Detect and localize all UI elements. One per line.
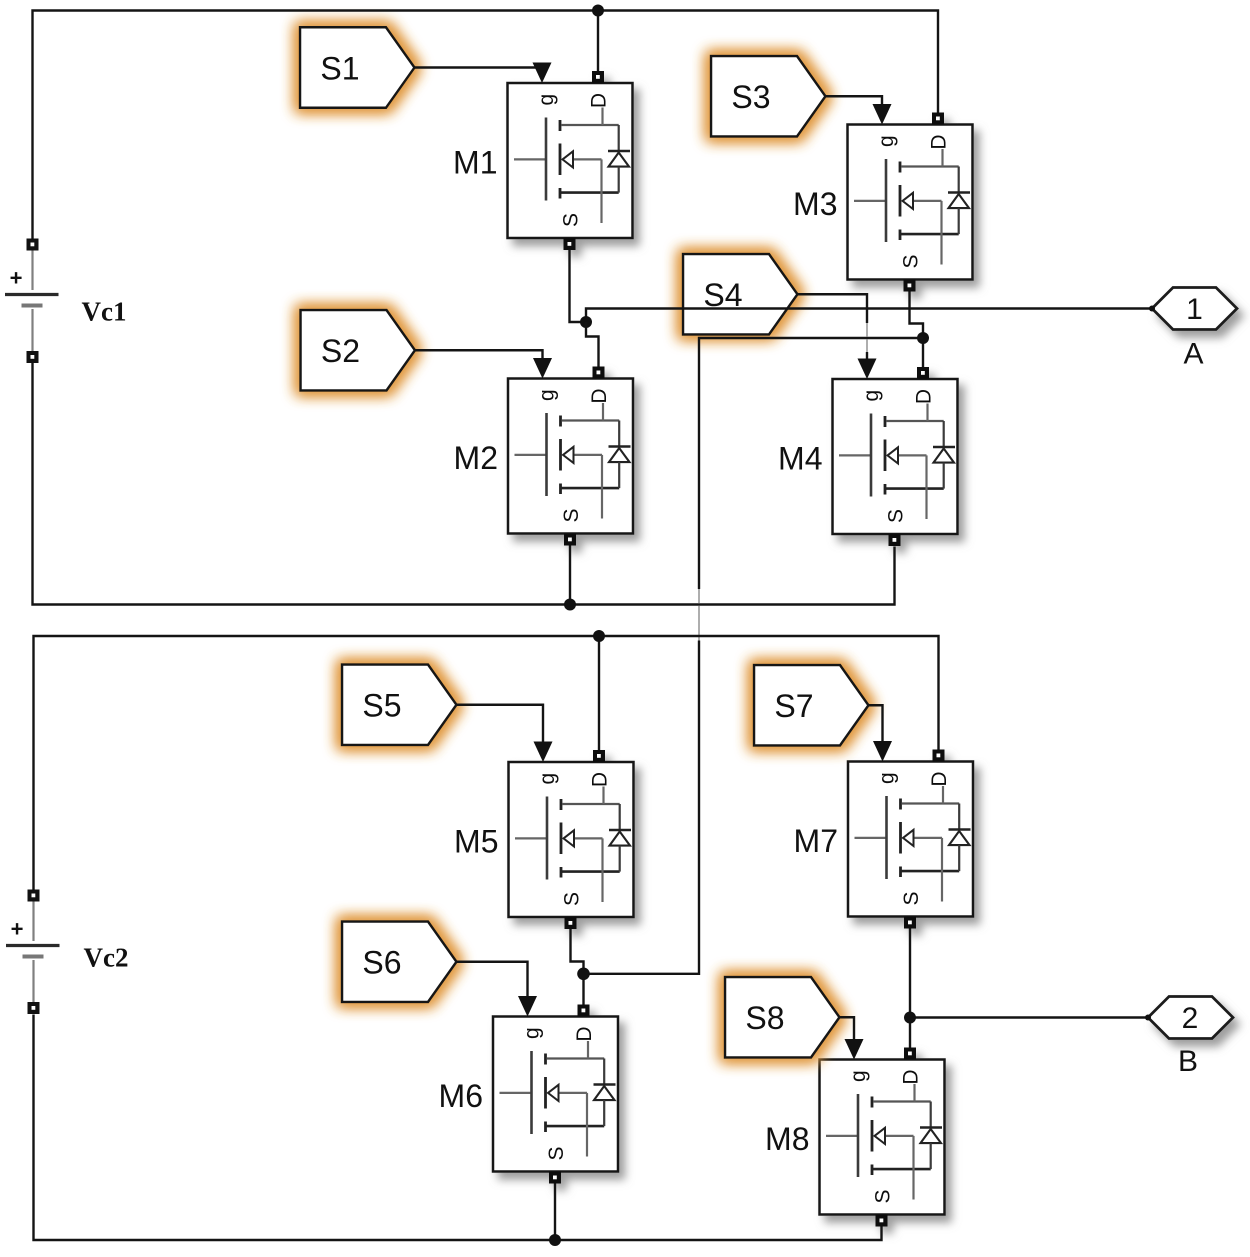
node: negative rail junction at M2 source	[564, 599, 576, 611]
wire: M7 source down through midpoint to M8 drain	[909, 929, 911, 1048]
transistor M5 (MOSFET)	[509, 750, 634, 929]
wire: M3 source jog down to leg-B midpoint and M4 drain	[910, 292, 924, 368]
wire: leg-A midpoint down to M2 drain	[586, 322, 599, 367]
wire: S6 tag to M6 gate	[457, 962, 528, 1012]
output port 2 (hexagon)	[1148, 997, 1233, 1039]
wire: M5 source jog down to bridge-2 left midpoint and M6 drain	[571, 929, 584, 1005]
node: bridge-2 right midpoint junction	[904, 1012, 916, 1024]
svg-text:2: 2	[1182, 1002, 1199, 1035]
tag S5	[342, 665, 457, 746]
wire: negative rail of bridge 1 from Vc1 - terminal to M4 source	[33, 363, 895, 605]
wire: positive rail of bridge 2 from Vc2 + terminal to M7 drain	[34, 636, 939, 890]
tag S8	[725, 977, 840, 1058]
svg-text:M8: M8	[765, 1121, 809, 1157]
svg-text:S3: S3	[731, 79, 770, 115]
node: leg-B midpoint junction	[917, 332, 929, 344]
arrowhead at M2 gate	[533, 358, 552, 379]
arrowhead at M8 gate	[845, 1039, 864, 1060]
DC source Vc2	[6, 890, 60, 1015]
node: bridge-2 top rail junction	[593, 630, 605, 642]
svg-text:1: 1	[1186, 293, 1203, 326]
wire: S1 tag to M1 gate	[415, 68, 543, 80]
svg-text:M4: M4	[778, 441, 822, 477]
svg-text:A: A	[1183, 338, 1203, 371]
node: bottom rail junction at M6 source	[549, 1234, 561, 1246]
svg-text:S5: S5	[362, 688, 401, 724]
wire: S8 tag to M8 gate	[840, 1017, 855, 1054]
transistor M8 (MOSFET)	[820, 1048, 945, 1227]
node: top rail junction	[592, 5, 604, 17]
svg-text:S1: S1	[320, 51, 359, 87]
output port 1 (hexagon)	[1152, 288, 1237, 330]
svg-text:M5: M5	[454, 824, 498, 860]
DC source Vc1	[5, 239, 59, 364]
arrowhead at M4 gate	[858, 359, 877, 380]
wire: cascade link faint segment crossing rails	[698, 589, 700, 641]
wire: cascade link lower solid part to bridge-2 midpoint	[584, 641, 700, 974]
wire: M6 source down to bottom rail	[554, 1184, 556, 1241]
tag S2	[301, 310, 416, 391]
svg-text:Vc1: Vc1	[82, 297, 127, 327]
arrowhead at M7 gate	[873, 741, 892, 762]
node: leg-A midpoint junction	[580, 316, 592, 328]
wire: S7 tag to M7 gate	[869, 705, 883, 756]
svg-text:S7: S7	[774, 688, 813, 724]
wire: S4 tag toward M4 gate (upper solid part)	[798, 294, 868, 323]
wire: cascade link from leg-B midpoint toward bridge 2 (solid part)	[699, 338, 923, 589]
tag S1	[300, 27, 415, 108]
wire: S4 faint segments crossing cascade link	[866, 323, 868, 352]
node: wire end at port B	[1145, 1015, 1151, 1021]
svg-text:M3: M3	[793, 186, 837, 222]
wire: M1 source to leg-A midpoint and across to output port A	[570, 250, 1153, 323]
node: bridge-2 left midpoint junction	[577, 968, 590, 981]
wire: bridge-2 right midpoint across to output port B	[910, 1016, 1148, 1018]
transistor M4 (MOSFET)	[833, 367, 958, 546]
wire: positive rail from Vc1 + terminal to M3 drain	[33, 11, 939, 239]
svg-text:M7: M7	[794, 823, 838, 859]
svg-text:M1: M1	[453, 145, 497, 181]
wire: negative rail of bridge 2 from Vc2 - terminal to M8 source	[34, 1015, 882, 1241]
tag S6	[342, 922, 457, 1003]
svg-text:S6: S6	[362, 945, 401, 981]
wire: bridge-2 rail branch down to M5 drain	[598, 636, 600, 750]
arrowhead at M5 gate	[534, 742, 553, 763]
node: wire end at port A	[1149, 306, 1155, 312]
tag S7	[754, 665, 869, 746]
svg-text:B: B	[1178, 1045, 1198, 1078]
svg-text:M2: M2	[454, 440, 498, 476]
svg-text:M6: M6	[439, 1078, 483, 1114]
svg-text:S2: S2	[321, 333, 360, 369]
wire: top rail branch down to M1 drain	[597, 11, 599, 72]
transistor M7 (MOSFET)	[848, 750, 973, 929]
transistor M3 (MOSFET)	[848, 113, 973, 292]
wire: M2 source down to negative rail	[569, 546, 571, 605]
wire: S4 lower solid part at M4 gate	[866, 352, 868, 374]
svg-text:Vc2: Vc2	[84, 943, 129, 973]
arrowhead at M1 gate	[533, 63, 552, 84]
arrowhead at M6 gate	[518, 996, 537, 1017]
arrowhead at M3 gate	[873, 104, 892, 125]
svg-text:S8: S8	[745, 1000, 784, 1036]
transistor M2 (MOSFET)	[508, 367, 633, 546]
transistor M6 (MOSFET)	[493, 1005, 618, 1184]
wire: S2 tag to M2 gate	[415, 350, 543, 374]
wire: S5 tag to M5 gate	[457, 705, 544, 757]
tag S4	[683, 254, 798, 335]
wire: S3 tag to M3 gate	[826, 96, 883, 120]
transistor M1 (MOSFET)	[508, 71, 633, 250]
tag S3	[711, 56, 826, 137]
